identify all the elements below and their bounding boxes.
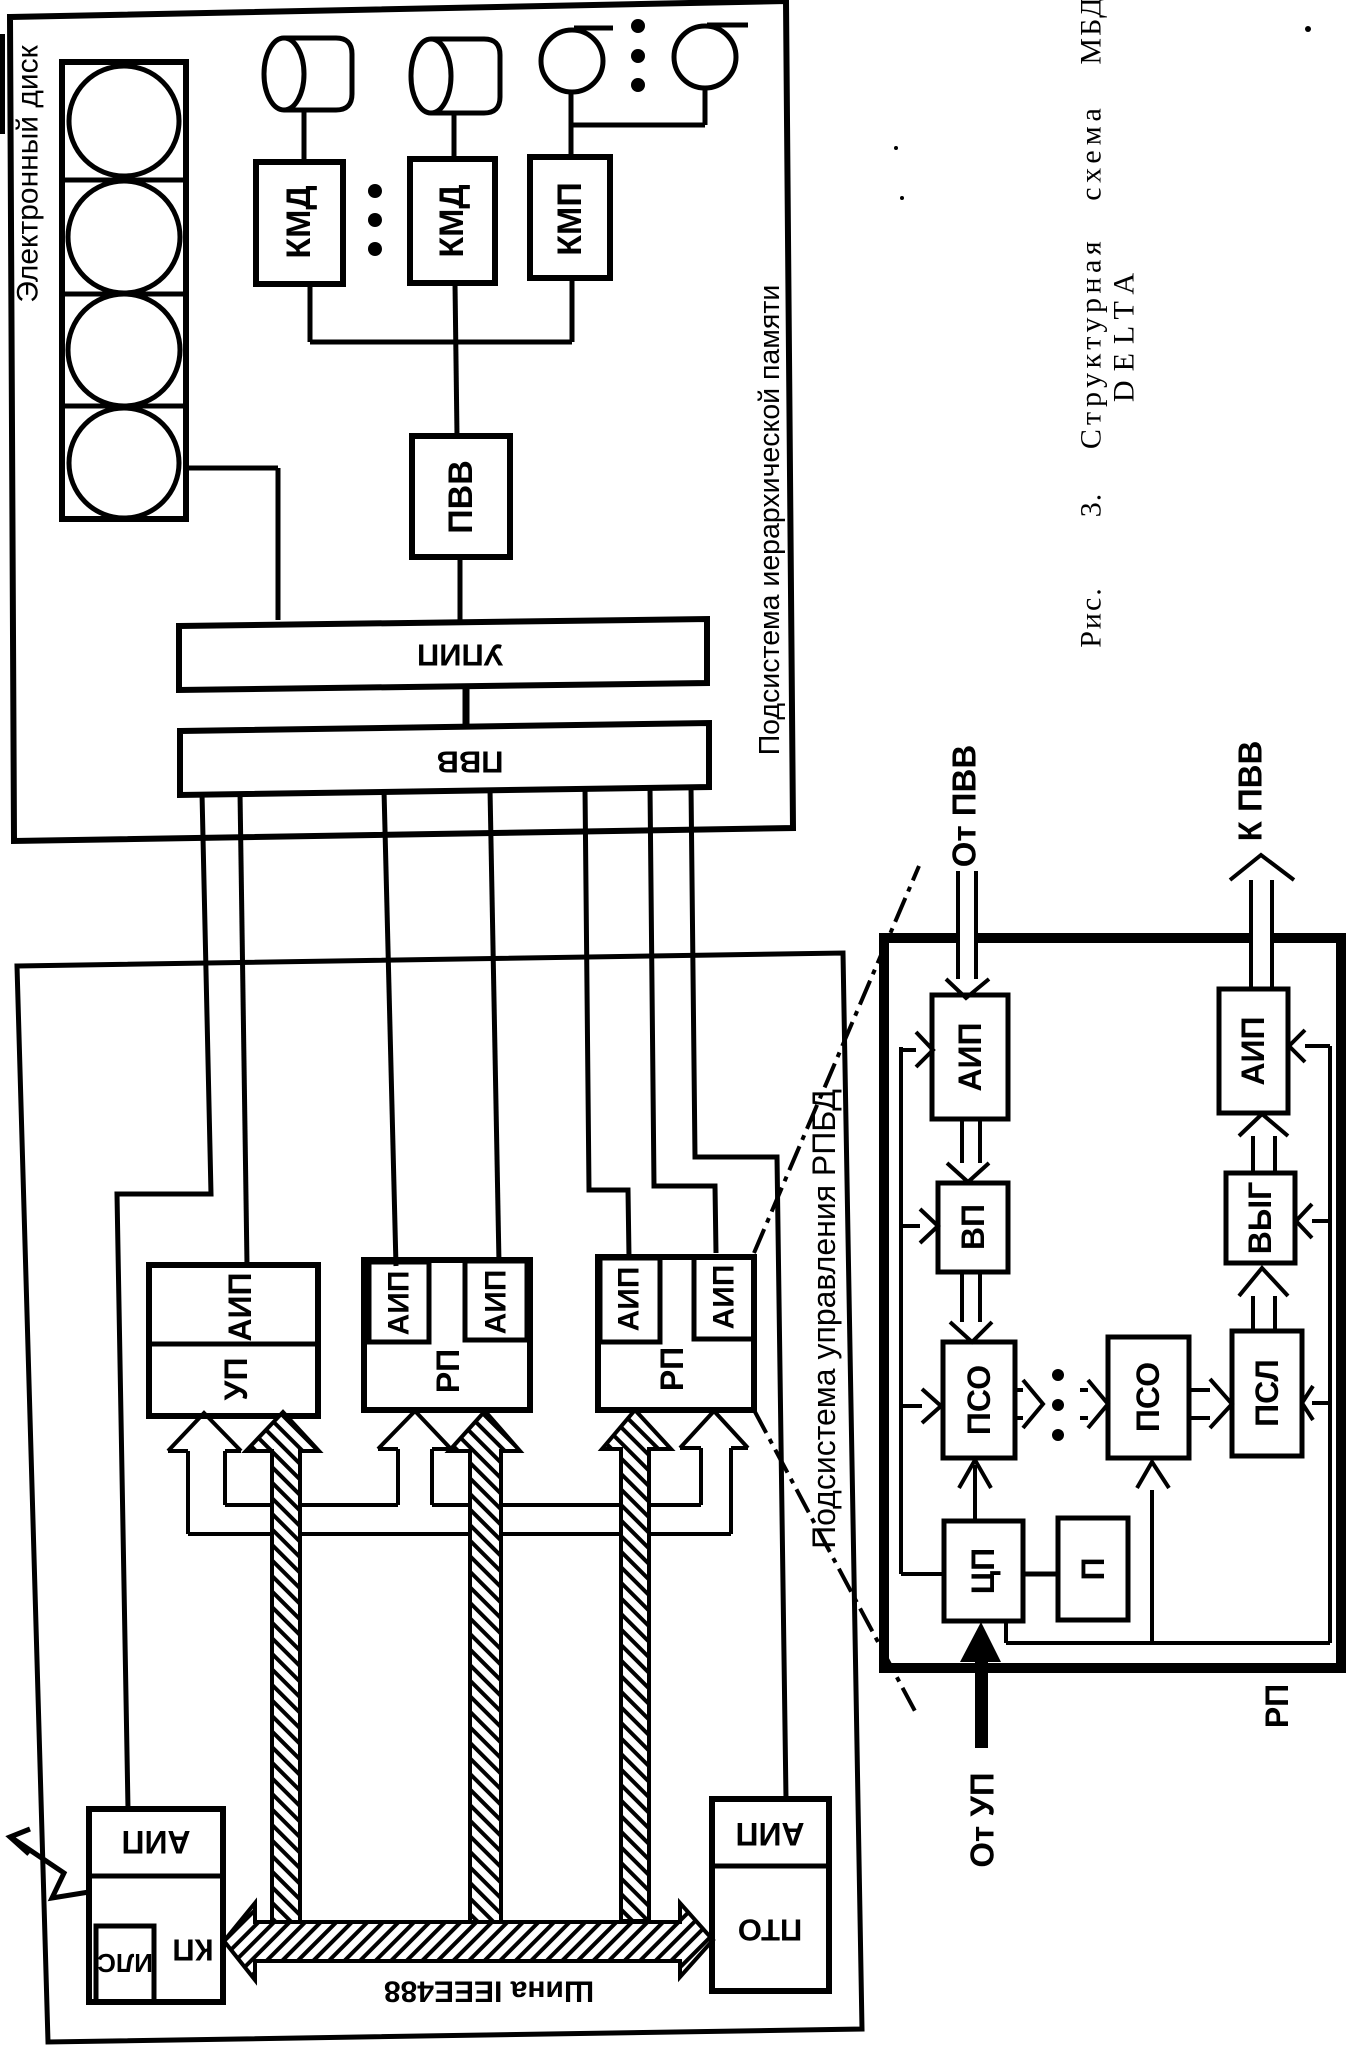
svg-text:ПСО: ПСО [1130,1362,1166,1432]
svg-text:КП: КП [172,1933,213,1968]
svg-text:АИП: АИП [613,1267,646,1332]
svg-text:К ПВВ: К ПВВ [1232,741,1269,842]
svg-text:УПИП: УПИП [417,638,503,673]
svg-text:КМП: КМП [551,182,589,256]
svg-text:ИЛС: ИЛС [97,1948,153,1978]
svg-text:ПТО: ПТО [738,1913,803,1948]
svg-text:ВЫГ: ВЫГ [1242,1182,1278,1255]
svg-text:РП: РП [654,1347,690,1391]
svg-text:Подсистема управления РПБД: Подсистема управления РПБД [806,1089,842,1549]
svg-text:РП: РП [1259,1684,1295,1728]
svg-text:Подсистема иерархической памят: Подсистема иерархической памяти [754,285,786,756]
svg-text:ВП: ВП [955,1204,991,1250]
svg-text:РП: РП [430,1349,466,1393]
svg-text:От ПВВ: От ПВВ [946,745,983,867]
svg-text:АИП: АИП [121,1824,190,1860]
svg-text:Электронный диск: Электронный диск [12,44,45,302]
svg-text:АИП: АИП [735,1816,804,1852]
svg-text:АИП: АИП [708,1265,741,1330]
svg-text:Структурная: Структурная [1075,237,1108,449]
svg-text:DELTA: DELTA [1108,264,1141,402]
svg-text:П: П [1075,1558,1111,1581]
svg-text:АИП: АИП [383,1271,416,1336]
svg-text:ПСО: ПСО [961,1365,997,1435]
svg-text:ПВВ: ПВВ [436,745,503,780]
svg-text:ЦП: ЦП [965,1548,1001,1594]
svg-text:Рис.: Рис. [1075,586,1108,648]
svg-text:АИП: АИП [222,1272,258,1341]
svg-text:АИП: АИП [1235,1016,1271,1085]
svg-text:КМД: КМД [280,185,318,258]
svg-text:МБД: МБД [1075,0,1108,65]
svg-text:КМД: КМД [433,184,471,257]
svg-text:От УП: От УП [964,1772,1001,1867]
svg-text:ПСЛ: ПСЛ [1249,1359,1285,1427]
svg-text:3.: 3. [1075,493,1108,518]
svg-text:Шина IEEE488: Шина IEEE488 [384,1975,594,2008]
svg-text:УП: УП [218,1358,254,1401]
svg-text:схема: схема [1075,103,1108,201]
svg-text:АИП: АИП [480,1270,513,1335]
svg-text:ПВВ: ПВВ [442,460,480,534]
svg-text:АИП: АИП [952,1022,988,1091]
